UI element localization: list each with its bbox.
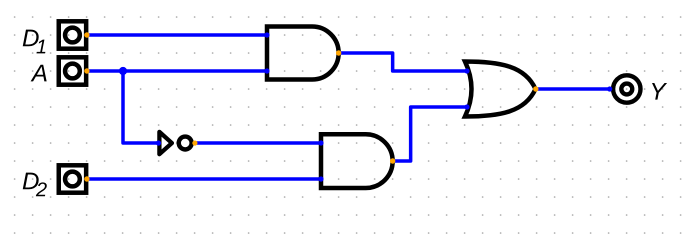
NOT gate U3 <box>159 132 191 154</box>
node wire end at NOT input <box>156 140 161 145</box>
wire OR output to output pin Y <box>536 87 610 91</box>
node AND2 output <box>390 158 395 163</box>
node wire end at OR input A <box>464 68 469 73</box>
node AND1 output <box>336 50 341 55</box>
wire AND1 output to OR input A <box>339 53 467 71</box>
node OR output <box>533 86 538 91</box>
wire A branch down to NOT input <box>123 71 159 143</box>
AND gate U1 <box>267 27 339 80</box>
node wire end at output pin Y <box>607 86 612 91</box>
output pin Y <box>613 75 640 102</box>
label D1 <box>23 30 39 47</box>
node D1 output <box>84 32 89 37</box>
label D2 <box>23 173 39 190</box>
wire NOT output to AND2 input A <box>195 141 322 145</box>
node wire end at AND1 input B <box>264 68 269 73</box>
node wire end at AND1 input A <box>264 32 269 37</box>
node junction on A wire <box>119 67 127 75</box>
wire A to AND1 input B <box>87 69 267 73</box>
node wire end at AND2 input B <box>318 176 323 181</box>
input pin D1 <box>59 21 86 48</box>
OR gate U4 <box>465 62 536 117</box>
wire D1 to AND1 input A <box>87 33 267 37</box>
wire D2 to AND2 input B <box>87 177 321 181</box>
node D2 output <box>84 176 89 181</box>
node NOT output <box>192 140 197 145</box>
input pin A <box>59 57 86 84</box>
wire AND2 output to OR input B <box>393 107 467 161</box>
node wire end at OR input B <box>464 104 469 109</box>
node A output <box>84 68 89 73</box>
label A <box>31 65 47 82</box>
node wire end at AND2 input A <box>318 140 323 145</box>
label Y <box>652 83 667 100</box>
AND gate U2 <box>321 134 393 188</box>
input pin D2 <box>59 165 86 192</box>
